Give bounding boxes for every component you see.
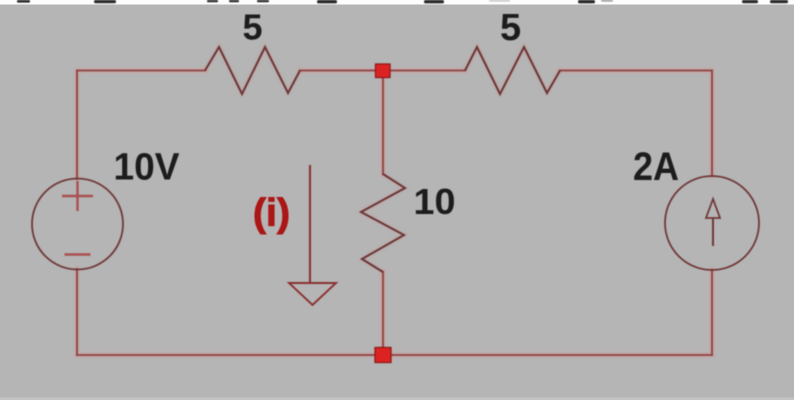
wire halos xyxy=(77,71,712,356)
I1 arrow head (open, pointing up) xyxy=(706,199,720,218)
current (i) arrow head (open triangle, pointing down) xyxy=(289,283,336,305)
svg-text:10V: 10V xyxy=(114,147,181,189)
cropped heading text fragments along top white strip xyxy=(17,0,788,3)
I1 arrow shaft xyxy=(712,218,714,246)
V1 minus sign xyxy=(65,253,91,256)
node B (bottom junction square) xyxy=(375,348,391,363)
svg-text:(i): (i) xyxy=(253,192,290,235)
wire cores xyxy=(77,71,712,356)
node A (top junction square) xyxy=(376,64,391,78)
svg-text:2A: 2A xyxy=(633,145,679,189)
svg-text:10: 10 xyxy=(414,181,456,222)
svg-text:5: 5 xyxy=(243,7,263,48)
svg-text:5: 5 xyxy=(500,7,521,49)
subtle lighter bottom edge xyxy=(0,398,794,400)
V1 plus sign xyxy=(62,181,93,211)
voltage source V1 circle xyxy=(32,179,123,270)
current (i) reference arrow shaft xyxy=(309,165,311,283)
current source I1 circle xyxy=(665,176,759,270)
